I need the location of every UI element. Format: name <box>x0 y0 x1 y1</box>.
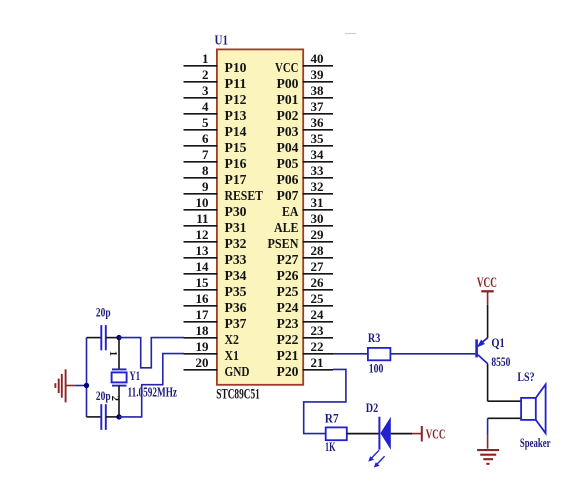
svg-text:P27: P27 <box>277 253 299 268</box>
svg-text:P34: P34 <box>225 269 247 284</box>
faint artifact dash top <box>345 33 356 35</box>
svg-text:11.0592MHz: 11.0592MHz <box>128 384 178 399</box>
svg-text:26: 26 <box>311 275 325 290</box>
svg-text:U1: U1 <box>215 34 229 49</box>
svg-text:15: 15 <box>196 275 210 290</box>
svg-text:13: 13 <box>196 243 210 258</box>
U1 pin 6 (P15) stub, number and name <box>184 131 247 156</box>
wire D2 to VCC bar <box>391 433 413 435</box>
svg-text:PSEN: PSEN <box>268 237 299 252</box>
svg-text:P12: P12 <box>225 93 247 108</box>
svg-text:Y1: Y1 <box>130 369 141 383</box>
U1 pin 31 (EA) stub, number and name <box>282 195 333 220</box>
wire P21 pin 22 to resistor R3 <box>333 353 368 355</box>
U1 pin 30 (ALE) stub, number and name <box>274 211 333 236</box>
U1 pin 29 (PSEN) stub, number and name <box>268 227 334 252</box>
svg-text:36: 36 <box>311 115 325 130</box>
svg-text:P22: P22 <box>277 333 299 348</box>
U1 pin 37 (P02) stub, number and name <box>277 99 334 124</box>
U1 pin 23 (P22) stub, number and name <box>277 323 334 348</box>
wire ground to node <box>76 385 87 387</box>
svg-text:P06: P06 <box>277 173 299 188</box>
U1 pin 15 (P35) stub, number and name <box>184 275 247 300</box>
svg-text:P01: P01 <box>277 93 299 108</box>
svg-text:1: 1 <box>202 51 209 66</box>
node junction bottom (X1 net) <box>116 414 121 419</box>
U1 pin 24 (P23) stub, number and name <box>277 307 334 332</box>
svg-text:38: 38 <box>311 83 325 98</box>
svg-text:29: 29 <box>311 227 325 242</box>
U1 pin 18 (X2) stub, number and name <box>184 323 240 348</box>
svg-text:P30: P30 <box>225 205 247 220</box>
speaker LS? symbol <box>521 384 546 433</box>
U1 pin 11 (P31) stub, number and name <box>184 211 247 236</box>
U1 pin 14 (P34) stub, number and name <box>184 259 247 284</box>
svg-text:11: 11 <box>196 211 208 226</box>
svg-text:ALE: ALE <box>274 221 299 236</box>
capacitor C top 20p : left lead wire <box>87 337 101 339</box>
U1 pin 28 (P27) stub, number and name <box>277 243 334 268</box>
node junction at ground tap <box>84 383 89 388</box>
U1 pin 21 (P20) stub, number and name <box>277 355 334 380</box>
svg-text:37: 37 <box>311 99 325 114</box>
wire left vertical bus between capacitors <box>86 338 88 417</box>
svg-text:40: 40 <box>311 51 324 66</box>
svg-text:P02: P02 <box>277 109 299 124</box>
wire collector to speaker top terminal <box>488 400 521 402</box>
svg-text:2: 2 <box>202 67 209 82</box>
svg-text:20: 20 <box>196 355 209 370</box>
svg-text:STC89C51: STC89C51 <box>216 386 259 402</box>
svg-text:12: 12 <box>196 227 209 242</box>
svg-text:100: 100 <box>369 362 384 376</box>
wire X1 net: node to pin 19 staircase <box>119 354 184 417</box>
svg-text:P11: P11 <box>225 77 247 92</box>
wire VCC to Q1 emitter <box>487 305 489 339</box>
U1 pin 1 (P10) stub, number and name <box>184 51 247 76</box>
svg-text:P23: P23 <box>277 317 299 332</box>
svg-text:27: 27 <box>311 259 325 274</box>
U1 pin 20 (GND) stub, number and name <box>184 355 250 380</box>
U1 pin 33 (P06) stub, number and name <box>277 163 334 188</box>
svg-text:14: 14 <box>196 259 210 274</box>
U1 pin 27 (P26) stub, number and name <box>277 259 334 284</box>
svg-text:X1: X1 <box>225 349 240 364</box>
U1 pin 4 (P13) stub, number and name <box>184 99 247 124</box>
svg-text:P21: P21 <box>277 349 299 364</box>
svg-text:8550: 8550 <box>491 355 510 369</box>
transistor Q1 (PNP 8550) <box>477 338 488 364</box>
U1 pin 9 (RESET) stub, number and name <box>184 179 264 204</box>
svg-text:8: 8 <box>202 163 209 178</box>
svg-text:Speaker: Speaker <box>520 436 551 450</box>
wire R3 to Q1 base <box>390 353 475 355</box>
svg-text:7: 7 <box>202 147 209 162</box>
U1 pin 36 (P03) stub, number and name <box>277 115 334 140</box>
svg-text:VCC: VCC <box>275 61 299 76</box>
svg-text:16: 16 <box>196 291 210 306</box>
power VCC symbol above Q1 <box>477 275 497 305</box>
svg-text:Q1: Q1 <box>491 336 504 350</box>
svg-text:VCC: VCC <box>477 275 497 291</box>
U1 pin 2 (P11) stub, number and name <box>184 67 247 92</box>
svg-text:P03: P03 <box>277 125 299 140</box>
U1 pin 19 (X1) stub, number and name <box>184 339 240 364</box>
U1 pin 13 (P33) stub, number and name <box>184 243 247 268</box>
svg-text:28: 28 <box>311 243 325 258</box>
svg-text:P14: P14 <box>225 125 247 140</box>
svg-text:6: 6 <box>202 131 209 146</box>
resistor R3 <box>368 348 391 360</box>
svg-text:5: 5 <box>202 115 209 130</box>
svg-text:P33: P33 <box>225 253 247 268</box>
svg-text:P31: P31 <box>225 221 247 236</box>
op-amp-style IC body U1 (STC89C51) <box>217 49 303 384</box>
svg-text:P24: P24 <box>277 301 299 316</box>
svg-text:1: 1 <box>107 351 119 357</box>
svg-text:23: 23 <box>311 323 325 338</box>
svg-text:P26: P26 <box>277 269 299 284</box>
capacitor C bottom 20p plates <box>101 404 106 430</box>
power VCC symbol right of D2 <box>412 426 445 442</box>
svg-text:19: 19 <box>196 339 210 354</box>
U1 pin 40 (VCC) stub, number and name <box>275 51 333 76</box>
svg-text:10: 10 <box>196 195 209 210</box>
svg-text:P16: P16 <box>225 157 247 172</box>
svg-text:18: 18 <box>196 323 210 338</box>
svg-text:P37: P37 <box>225 317 247 332</box>
svg-text:31: 31 <box>311 195 324 210</box>
U1 pin 16 (P36) stub, number and name <box>184 291 247 316</box>
node junction top (X2 net) <box>116 335 121 340</box>
ground (left, near crystal) <box>55 369 76 402</box>
capacitor C bottom 20p : left lead wire <box>87 416 101 418</box>
U1 pin 35 (P04) stub, number and name <box>277 131 334 156</box>
ground (below speaker) <box>477 450 499 464</box>
svg-text:21: 21 <box>311 355 324 370</box>
svg-text:P25: P25 <box>277 285 299 300</box>
svg-text:P07: P07 <box>277 189 299 204</box>
svg-text:P05: P05 <box>277 157 299 172</box>
U1 pin 34 (P05) stub, number and name <box>277 147 334 172</box>
crystal Y1 symbol <box>112 369 127 385</box>
crystal Y1 top lead wire <box>118 338 120 370</box>
wire Q1 collector down <box>487 364 489 402</box>
U1 pin 22 (P21) stub, number and name <box>277 339 334 364</box>
svg-text:9: 9 <box>202 179 209 194</box>
U1 pin 10 (P30) stub, number and name <box>184 195 247 220</box>
svg-text:35: 35 <box>311 131 325 146</box>
U1 pin 5 (P14) stub, number and name <box>184 115 247 140</box>
wire R7 to LED D2 <box>347 433 379 435</box>
resistor R7 <box>326 427 347 440</box>
svg-text:22: 22 <box>311 339 324 354</box>
U1 pin 3 (P12) stub, number and name <box>184 83 247 108</box>
capacitor C top 20p plates <box>101 325 106 350</box>
U1 pin 7 (P16) stub, number and name <box>184 147 247 172</box>
svg-text:25: 25 <box>311 291 325 306</box>
svg-text:3: 3 <box>202 83 209 98</box>
svg-text:LS?: LS? <box>517 370 534 384</box>
capacitor C bottom right lead wire <box>106 416 119 418</box>
svg-text:P17: P17 <box>225 173 247 188</box>
svg-text:33: 33 <box>311 163 325 178</box>
wire P20 pin 21 staircase to R7 <box>304 369 346 433</box>
svg-text:34: 34 <box>311 147 325 162</box>
svg-text:RESET: RESET <box>225 189 264 204</box>
svg-text:GND: GND <box>225 365 250 380</box>
svg-text:EA: EA <box>282 205 299 220</box>
svg-text:D2: D2 <box>366 401 378 415</box>
capacitor C top right lead wire <box>106 337 119 339</box>
wire speaker bottom terminal to ground <box>488 417 521 419</box>
svg-text:P35: P35 <box>225 285 247 300</box>
svg-text:30: 30 <box>311 211 324 226</box>
svg-text:P32: P32 <box>225 237 247 252</box>
svg-text:P04: P04 <box>277 141 299 156</box>
LED D2 symbol <box>368 417 391 468</box>
U1 pin 17 (P37) stub, number and name <box>184 307 247 332</box>
U1 pin 39 (P00) stub, number and name <box>277 67 334 92</box>
svg-text:4: 4 <box>202 99 209 114</box>
svg-text:P10: P10 <box>225 61 247 76</box>
U1 pin 8 (P17) stub, number and name <box>184 163 247 188</box>
svg-text:R3: R3 <box>368 331 380 345</box>
svg-text:P36: P36 <box>225 301 247 316</box>
svg-text:P20: P20 <box>277 365 299 380</box>
U1 pin 25 (P24) stub, number and name <box>277 291 334 316</box>
svg-text:R7: R7 <box>325 412 339 426</box>
svg-text:17: 17 <box>196 307 210 322</box>
svg-text:X2: X2 <box>225 333 240 348</box>
U1 pin 32 (P07) stub, number and name <box>277 179 334 204</box>
svg-text:20p: 20p <box>96 389 111 403</box>
svg-text:39: 39 <box>311 67 325 82</box>
wire X2 net: node to pin 18 with dip <box>119 338 184 368</box>
svg-text:20p: 20p <box>96 306 111 320</box>
svg-text:24: 24 <box>311 307 325 322</box>
svg-text:P00: P00 <box>277 77 299 92</box>
crystal Y1 bottom lead wire <box>118 386 120 417</box>
U1 pin 12 (P32) stub, number and name <box>184 227 247 252</box>
svg-text:VCC: VCC <box>426 426 446 441</box>
svg-text:P13: P13 <box>225 109 247 124</box>
svg-text:P15: P15 <box>225 141 247 156</box>
U1 pin 38 (P01) stub, number and name <box>277 83 334 108</box>
svg-text:32: 32 <box>311 179 324 194</box>
U1 pin 26 (P25) stub, number and name <box>277 275 334 300</box>
svg-text:1K: 1K <box>325 440 336 454</box>
svg-text:2: 2 <box>109 396 121 402</box>
